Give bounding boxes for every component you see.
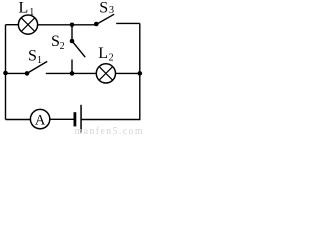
wire S3 fixed contact to right edge xyxy=(116,22,140,24)
svg-text:1: 1 xyxy=(37,55,42,66)
wire battery to bottom right corner xyxy=(81,23,140,119)
wire L1 to S3 pivot xyxy=(38,24,97,26)
switch S2 xyxy=(70,39,86,58)
svg-text:1: 1 xyxy=(29,7,34,18)
svg-text:L: L xyxy=(98,45,108,62)
battery xyxy=(74,105,82,133)
node junction left edge / middle row xyxy=(3,71,8,76)
svg-text:S: S xyxy=(99,0,108,17)
svg-text:A: A xyxy=(35,112,46,128)
label S1 xyxy=(28,47,42,66)
node junction right edge / middle row xyxy=(138,71,143,76)
label S3 xyxy=(99,0,114,17)
wire bottom left to ammeter xyxy=(6,119,31,121)
wire top left corner to lamp L1 xyxy=(6,24,19,26)
node junction middle row / S2 xyxy=(70,71,75,76)
lamp L2 xyxy=(96,64,115,83)
svg-text:2: 2 xyxy=(60,41,65,52)
label L2 xyxy=(98,45,113,64)
wire ammeter to battery xyxy=(50,118,74,120)
ammeter A1 xyxy=(30,109,49,128)
wire S1 fixed contact to L2 xyxy=(46,72,97,74)
svg-text:S: S xyxy=(28,47,37,64)
label S2 xyxy=(51,33,65,52)
lamp L1 xyxy=(18,15,37,34)
svg-text:L: L xyxy=(19,0,29,16)
svg-text:3: 3 xyxy=(109,5,114,16)
wire left edge xyxy=(5,25,7,120)
svg-text:manfen5.com: manfen5.com xyxy=(75,126,145,136)
wire S2 lower stub xyxy=(71,60,73,74)
svg-text:S: S xyxy=(51,33,60,50)
wire S2 upper stub xyxy=(71,25,73,41)
label L1 xyxy=(19,0,35,18)
wire L2 to right edge xyxy=(116,72,140,74)
svg-text:2: 2 xyxy=(109,53,114,64)
switch S1 xyxy=(25,61,48,75)
switch S3 xyxy=(94,14,114,26)
wire middle row left edge to S1 pivot xyxy=(6,72,28,74)
node junction top wire / S2 xyxy=(70,23,75,28)
